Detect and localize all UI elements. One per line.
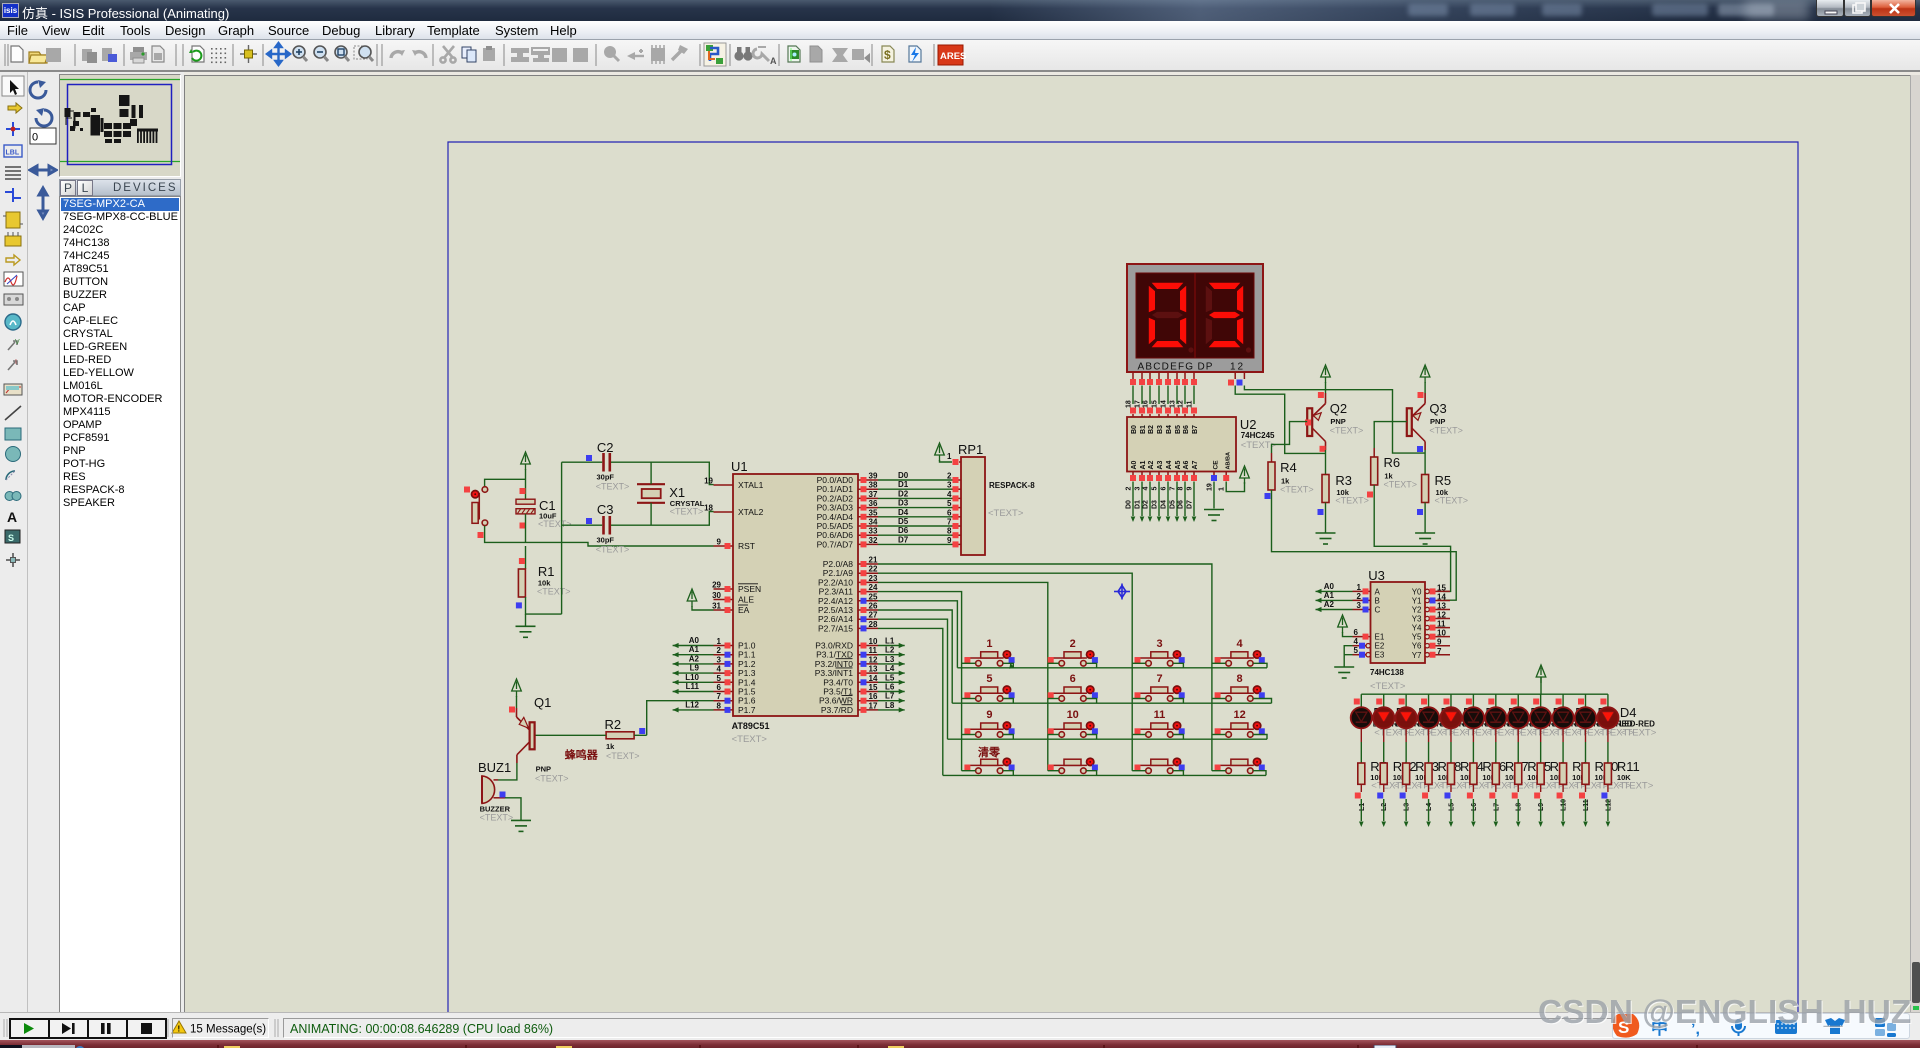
svg-text:R3: R3: [1335, 473, 1352, 488]
svg-text:$: $: [884, 48, 891, 62]
wire: [485, 526, 714, 546]
wire: [1048, 662, 1059, 664]
svg-text:L10: L10: [685, 673, 699, 682]
pin 26 P2.5/A13: [858, 609, 878, 611]
pin 25 P2.4/A12: [858, 600, 878, 602]
pin segment B (display): [1141, 372, 1143, 379]
LED 5 (D9) lit: [1440, 707, 1461, 728]
svg-text:A1: A1: [1140, 460, 1147, 469]
wire (Q2 collector to R3): [1325, 450, 1327, 475]
svg-text:2: 2: [1126, 487, 1133, 491]
wire: [1325, 503, 1327, 534]
wire: [1450, 784, 1452, 792]
svg-text:1: 1: [1357, 583, 1362, 592]
svg-text:12: 12: [1437, 611, 1446, 620]
wire: [1540, 784, 1542, 792]
svg-text:Q3: Q3: [1429, 401, 1446, 416]
capacitor C2: [602, 453, 605, 472]
svg-text:P0.7/AD7: P0.7/AD7: [817, 539, 854, 549]
svg-text:18: 18: [704, 504, 713, 513]
svg-text:15: 15: [869, 683, 878, 692]
pin 33 P0.6/AD6: [858, 534, 878, 536]
pin segment E (display): [1167, 372, 1169, 379]
resistor R8 (LED 9): [1537, 763, 1544, 784]
svg-text:<TEXT>: <TEXT>: [1384, 480, 1418, 490]
svg-text:C2: C2: [597, 440, 614, 455]
svg-text:<TEXT>: <TEXT>: [1370, 681, 1406, 692]
svg-text:A7: A7: [1192, 460, 1199, 469]
wire: [1212, 698, 1226, 700]
svg-text:<TEXT>: <TEXT>: [535, 774, 569, 784]
svg-text:PSEN: PSEN: [738, 584, 761, 594]
pin 1 (RP1): [959, 461, 961, 463]
svg-text:4: 4: [1143, 487, 1150, 491]
wire: [1173, 735, 1183, 740]
svg-text:<TEXT>: <TEXT>: [1280, 485, 1314, 495]
wire: [1472, 784, 1474, 792]
wire: [1132, 698, 1146, 700]
svg-text:1: 1: [986, 638, 992, 650]
svg-text:18: 18: [1126, 400, 1133, 408]
svg-text:A4: A4: [1166, 460, 1173, 469]
wire D3: [878, 507, 952, 509]
wire: [1173, 699, 1183, 704]
crystal X1: [637, 483, 665, 485]
transistor Q1 PNP: [530, 722, 535, 749]
pin 3 (RP1): [952, 488, 961, 490]
wire: [962, 734, 976, 736]
svg-text:DP: DP: [1198, 362, 1214, 373]
svg-text:P2.7/A15: P2.7/A15: [818, 623, 853, 633]
wire: [1253, 663, 1267, 668]
wire D1: [878, 488, 952, 490]
svg-text:6: 6: [1161, 487, 1168, 491]
svg-text:L9: L9: [690, 664, 700, 673]
svg-text:D4: D4: [1620, 705, 1637, 720]
svg-text:7: 7: [947, 518, 952, 527]
pin 21 P2.0/A8: [858, 563, 878, 565]
pin 24 P2.3/A11: [858, 591, 878, 593]
pin 16 P3.6/WR: [858, 700, 878, 702]
wire P2.5 to keypad: [878, 610, 952, 703]
capacitor C3: [602, 516, 605, 535]
power +5V VCC (LED rail): [1536, 665, 1546, 683]
wire: [1167, 386, 1169, 405]
wire: [1149, 386, 1151, 405]
LED 9 (D8) off: [1530, 707, 1551, 728]
svg-text:L9: L9: [1538, 803, 1545, 811]
wire: [1383, 694, 1385, 707]
wire: [1213, 482, 1215, 509]
svg-text:34: 34: [869, 518, 878, 527]
svg-text:U3: U3: [1368, 568, 1385, 583]
wire D6 (U2 out): [1184, 482, 1186, 517]
svg-text:D6: D6: [898, 526, 909, 535]
wire: [1184, 386, 1186, 405]
resistor R16 (LED 6): [1470, 763, 1477, 784]
svg-text:BUZ1: BUZ1: [478, 760, 511, 775]
svg-text:33: 33: [869, 527, 878, 536]
svg-text:1: 1: [947, 452, 952, 461]
svg-text:R1: R1: [538, 564, 555, 579]
pin 7 P1.6: [714, 700, 734, 702]
svg-text:<TEXT>: <TEXT>: [1621, 728, 1657, 739]
svg-text:B1: B1: [1140, 425, 1147, 434]
wire: [1540, 694, 1542, 707]
pin 15 Y0 (U3): [1425, 589, 1429, 593]
pin 11 P3.1/TXD: [858, 654, 878, 656]
pin segment A (display): [1132, 372, 1134, 379]
wire (digit2 to Q3 collector): [1244, 386, 1425, 454]
svg-text:25: 25: [869, 592, 878, 601]
wire: [1343, 655, 1345, 667]
LED 4 (D8) off: [1418, 707, 1439, 728]
capacitor C1: [516, 499, 535, 504]
svg-text:1: 1: [1219, 487, 1226, 491]
svg-text:XTAL1: XTAL1: [738, 480, 764, 490]
svg-text:ALE: ALE: [738, 595, 754, 605]
svg-text:L3: L3: [1404, 803, 1411, 811]
wire (base R2 to Q1): [535, 734, 606, 736]
svg-text:B3: B3: [1157, 425, 1164, 434]
wire: [526, 597, 562, 614]
svg-text:6: 6: [1354, 628, 1359, 637]
svg-text:15: 15: [1152, 400, 1159, 408]
power +5V VCC (U3 E1): [1338, 615, 1348, 633]
svg-text:<TEXT>: <TEXT>: [1435, 496, 1469, 506]
svg-text:ABCDEFG: ABCDEFG: [1138, 362, 1195, 373]
svg-text:D0: D0: [1126, 500, 1133, 509]
svg-text:19: 19: [1207, 483, 1214, 491]
wire A0: [1316, 590, 1353, 592]
pin 9 (RP1): [952, 543, 961, 545]
svg-text:A2: A2: [1324, 600, 1335, 609]
wire: [1585, 729, 1587, 743]
wire D4 (U2 out): [1167, 482, 1169, 517]
wire: [525, 469, 527, 499]
LED 10 (D9) off: [1552, 707, 1573, 728]
svg-text:27: 27: [869, 611, 878, 620]
wire: [1253, 735, 1267, 740]
svg-text:6: 6: [717, 683, 722, 692]
wire D7 (U2 out): [1193, 482, 1195, 517]
wire: [1343, 632, 1353, 637]
wire: [562, 461, 603, 463]
wire: [1424, 382, 1426, 393]
resistor R7 (LED 1): [1358, 763, 1365, 784]
wire L6: [878, 691, 905, 693]
pin 36 P0.3/AD3: [858, 507, 878, 509]
pin 5 E3 (U3): [1353, 654, 1367, 656]
svg-text:Y6: Y6: [1412, 642, 1422, 651]
wire L2: [878, 654, 905, 656]
pin 9 Y6 (U3): [1425, 644, 1429, 648]
svg-text:U2: U2: [1240, 417, 1257, 432]
svg-text:D4: D4: [898, 508, 909, 517]
svg-text:V: V: [15, 339, 20, 346]
wire: [1472, 729, 1474, 743]
pin 2 P1.1: [714, 654, 734, 656]
wire: [1086, 663, 1096, 668]
pin 38 P0.1/AD1: [858, 488, 878, 490]
wire keypad row 3: [948, 738, 1268, 740]
resistor R4: [1271, 453, 1273, 462]
wire: [1325, 382, 1327, 393]
pin 23 P2.2/A10: [858, 581, 878, 583]
svg-text:8: 8: [1178, 487, 1185, 491]
pin 4 P1.3: [714, 672, 734, 674]
svg-text:12: 12: [1233, 709, 1245, 721]
svg-text:L1: L1: [1359, 803, 1366, 811]
svg-text:22: 22: [869, 565, 878, 574]
wire: [1003, 663, 1013, 668]
svg-text:U1: U1: [731, 459, 748, 474]
7-segment display 7SEG-MPX2-CA showing 03: [1127, 264, 1263, 372]
button 12 (keypad): [1215, 728, 1254, 730]
svg-text:LBL: LBL: [6, 150, 20, 157]
LED 2 (D6) lit: [1373, 707, 1394, 728]
button 10 (keypad): [1048, 728, 1087, 730]
svg-text:38: 38: [869, 481, 878, 490]
svg-text:A3: A3: [1157, 460, 1164, 469]
resistor R13 (LED 3): [1403, 763, 1410, 784]
wire (digit1 to Q2 collector): [1235, 386, 1325, 454]
pin 32 P0.7/AD7: [858, 543, 878, 545]
LED 11 (D5) off: [1575, 707, 1596, 728]
svg-text:R5: R5: [1435, 473, 1452, 488]
svg-text:Y2: Y2: [1412, 606, 1422, 615]
wire: [1048, 770, 1059, 772]
svg-text:P3.7/RD: P3.7/RD: [821, 705, 853, 715]
wire: [1086, 699, 1096, 704]
button K16 (keypad): [1215, 764, 1254, 766]
pin 8 P1.7: [714, 709, 734, 711]
wire: [1562, 784, 1564, 792]
wire D3 (U2 out): [1158, 482, 1160, 517]
svg-text:A0: A0: [689, 636, 700, 645]
svg-text:D6: D6: [1178, 500, 1185, 509]
pin segment F (display): [1176, 372, 1178, 379]
svg-text:<TEXT>: <TEXT>: [988, 508, 1024, 519]
svg-text:L8: L8: [1516, 803, 1523, 811]
svg-text:24: 24: [869, 583, 878, 592]
wire: [561, 462, 563, 614]
svg-text:<TEXT>: <TEXT>: [1618, 781, 1654, 792]
pin 5 P1.4: [714, 681, 734, 683]
svg-text:蜂鸣器: 蜂鸣器: [565, 748, 599, 762]
wire: [1607, 729, 1609, 743]
MCU U1 AT89C51: [733, 474, 858, 716]
wire: [1048, 734, 1059, 736]
svg-text:1: 1: [717, 637, 722, 646]
wire D4: [878, 516, 952, 518]
svg-text:9: 9: [1437, 638, 1442, 647]
svg-text:E2: E2: [1375, 642, 1385, 651]
svg-text:13: 13: [1437, 602, 1446, 611]
resistor R9 (LED 10): [1560, 763, 1567, 784]
wire: [1086, 771, 1096, 776]
pin 4 E2 (U3): [1353, 645, 1367, 647]
svg-text:4: 4: [1237, 638, 1244, 650]
svg-text:R11: R11: [1617, 759, 1640, 774]
pin 30 ALE: [714, 599, 734, 601]
wire L10: [673, 681, 714, 683]
pin 13 P3.3/INT1: [858, 672, 878, 674]
svg-text:30: 30: [712, 591, 721, 600]
wire: [692, 606, 714, 610]
resistor R12 (LED 2): [1380, 763, 1387, 784]
svg-text:17: 17: [869, 701, 878, 710]
svg-text:4: 4: [717, 665, 722, 674]
wire: [1253, 699, 1271, 704]
svg-text:1k: 1k: [606, 742, 615, 751]
svg-text:3: 3: [1357, 601, 1362, 610]
wire: [1193, 386, 1195, 405]
buzzer BUZ1: [482, 776, 495, 804]
wire: [1003, 699, 1013, 704]
svg-text:A: A: [1375, 587, 1381, 596]
wire D1 (U2 out): [1141, 482, 1143, 517]
svg-text:A2: A2: [1148, 460, 1155, 469]
wire keypad row 1: [957, 667, 1267, 669]
svg-text:74HC138: 74HC138: [1370, 668, 1404, 677]
pin 19 XTAL1: [714, 484, 734, 486]
pin 22 P2.1/A9: [858, 572, 878, 574]
wire P2.4 to keypad: [878, 601, 957, 668]
pin 2 (RP1): [952, 479, 961, 481]
wire keypad row 2: [952, 702, 1271, 704]
svg-text:ARES: ARES: [940, 51, 966, 62]
pin 11 Y4 (U3): [1425, 625, 1429, 629]
wire L11: [673, 691, 714, 693]
svg-text:6: 6: [947, 508, 952, 517]
svg-text:9: 9: [947, 536, 952, 545]
svg-text:3: 3: [1156, 638, 1162, 650]
svg-text:L1: L1: [885, 637, 895, 646]
wire: [650, 503, 652, 525]
wire: [1360, 694, 1362, 707]
svg-text:B4: B4: [1166, 425, 1173, 434]
wire: [1132, 662, 1146, 664]
svg-text:A5: A5: [1175, 460, 1182, 469]
svg-text:16: 16: [1143, 400, 1150, 408]
buffer U2 74HC245: [1127, 417, 1236, 472]
button 5 (keypad): [965, 692, 1004, 694]
pin 9 RST: [714, 545, 734, 547]
svg-text:2: 2: [1357, 592, 1362, 601]
svg-text:A: A: [7, 509, 17, 525]
wire: [1405, 694, 1407, 707]
svg-text:10: 10: [1067, 709, 1079, 721]
pin 3 C (U3): [1353, 609, 1371, 611]
svg-text:D3: D3: [898, 499, 909, 508]
svg-text:12: 12: [1230, 362, 1245, 373]
pin 7 (RP1): [952, 525, 961, 527]
sheet border: [448, 142, 1798, 1013]
resistor R11 (LED 12): [1604, 763, 1611, 784]
svg-text:L11: L11: [1583, 799, 1590, 811]
svg-text:RST: RST: [738, 541, 755, 551]
svg-text:L8: L8: [885, 701, 895, 710]
svg-text:13: 13: [1170, 400, 1177, 408]
svg-text:5: 5: [1152, 487, 1159, 491]
svg-text:2: 2: [717, 646, 722, 655]
svg-text:31: 31: [712, 602, 721, 611]
wire: [525, 514, 527, 543]
svg-text:C3: C3: [597, 502, 614, 517]
power +5V VCC (EA): [687, 589, 697, 607]
svg-text:<TEXT>: <TEXT>: [538, 519, 572, 529]
wire: [1450, 694, 1452, 707]
wire: [1141, 386, 1143, 405]
wire A2: [1316, 609, 1353, 611]
svg-text:PNP: PNP: [536, 765, 551, 774]
wire (Q3 base): [1374, 422, 1407, 448]
svg-text:<TEXT>: <TEXT>: [1429, 426, 1463, 436]
svg-text:4: 4: [947, 490, 952, 499]
pin 6 (RP1): [952, 516, 961, 518]
wire A1: [673, 654, 714, 656]
wire: [1585, 694, 1587, 707]
svg-text:L6: L6: [885, 683, 895, 692]
wire A1: [1316, 599, 1353, 601]
wire keypad row 4: [943, 774, 1266, 776]
button 2 (keypad): [1048, 657, 1087, 659]
pin segment D (display): [1158, 372, 1160, 379]
ground (R5): [1415, 533, 1435, 544]
svg-text:D5: D5: [898, 517, 909, 526]
svg-text:28: 28: [869, 620, 878, 629]
svg-text:Y7: Y7: [1412, 651, 1422, 660]
svg-text:A1: A1: [689, 645, 700, 654]
pin segment C (display): [1149, 372, 1151, 379]
power +5V VCC (reset section): [521, 452, 531, 470]
pin 5 (RP1): [952, 507, 961, 509]
pin 31 EA: [714, 609, 734, 611]
svg-text:L12: L12: [685, 700, 699, 709]
wire: [1540, 729, 1542, 743]
wire: [1158, 386, 1160, 405]
svg-text:D7: D7: [1187, 500, 1194, 509]
pin 6 P1.5: [714, 691, 734, 693]
LED 8 (D7) off: [1508, 707, 1529, 728]
svg-text:D0: D0: [898, 471, 909, 480]
svg-text:3: 3: [947, 481, 952, 490]
power +5V VCC (Q2): [1321, 365, 1331, 383]
svg-text:7: 7: [1156, 673, 1162, 685]
wire: [505, 798, 521, 821]
resistor R10 (LED 11): [1582, 763, 1589, 784]
svg-text:L2: L2: [885, 646, 895, 655]
svg-text:X1: X1: [669, 485, 685, 500]
svg-text:30pF: 30pF: [597, 536, 615, 545]
svg-text:7: 7: [1437, 647, 1442, 656]
svg-text:<TEXT>: <TEXT>: [480, 813, 514, 823]
pin 35 P0.4/AD4: [858, 516, 878, 518]
power +5V VCC (Q1): [512, 679, 522, 697]
pin 17 P3.7/RD: [858, 709, 878, 711]
pin 12 P3.2/INT0: [858, 663, 878, 665]
wire D6: [878, 534, 952, 536]
svg-text:12: 12: [869, 655, 878, 664]
wire: [1173, 771, 1183, 776]
wire D0 (U2 out): [1132, 482, 1134, 517]
svg-text:30pF: 30pF: [597, 473, 615, 482]
svg-text:7: 7: [717, 692, 722, 701]
svg-text:12: 12: [1178, 400, 1185, 408]
wire (Q1 collector to buzzer): [498, 763, 517, 780]
button 7 (keypad): [1135, 692, 1174, 694]
